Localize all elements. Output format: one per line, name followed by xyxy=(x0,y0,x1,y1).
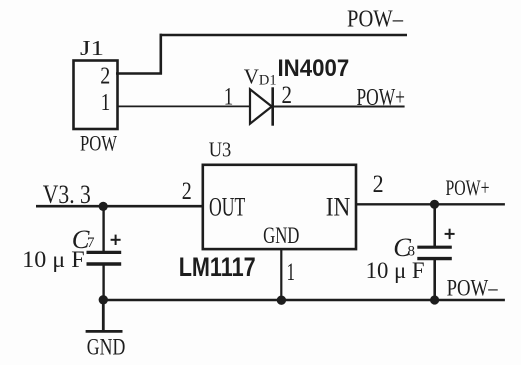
svg-text:POW+: POW+ xyxy=(446,175,490,200)
node C8/POW- junction xyxy=(430,295,439,304)
svg-text:2: 2 xyxy=(373,171,384,198)
wire U3 IN pin 2 to POW+ xyxy=(356,203,505,205)
wire bottom POW- rail xyxy=(103,299,505,302)
svg-text:V3. 3: V3. 3 xyxy=(43,179,91,209)
svg-text:VD1: VD1 xyxy=(244,65,277,89)
svg-text:GND: GND xyxy=(263,223,299,249)
wire V3.3 to U3 OUT pin 2 xyxy=(36,205,203,208)
svg-text:1: 1 xyxy=(287,257,296,286)
svg-text:OUT: OUT xyxy=(209,193,245,222)
svg-text:POW: POW xyxy=(80,131,118,156)
svg-text:2: 2 xyxy=(182,178,192,205)
svg-text:GND: GND xyxy=(87,335,126,360)
svg-text:1: 1 xyxy=(101,90,111,116)
svg-text:J1: J1 xyxy=(80,36,104,60)
svg-text:10 μ F: 10 μ F xyxy=(366,258,425,284)
node POW+/C8 junction xyxy=(430,200,439,209)
node C7/GND junction xyxy=(99,295,108,304)
capacitor C7 xyxy=(87,206,122,300)
svg-text:POW+: POW+ xyxy=(357,84,406,111)
node U3 pin1 junction xyxy=(277,296,286,305)
svg-text:IN: IN xyxy=(326,193,351,222)
svg-text:10 μ F: 10 μ F xyxy=(22,247,84,273)
svg-text:POW–: POW– xyxy=(447,276,498,302)
connector J1 xyxy=(74,61,118,130)
svg-text:7: 7 xyxy=(87,235,95,251)
svg-text:2: 2 xyxy=(100,64,110,90)
wire J1 pin1 to diode anode xyxy=(117,105,250,107)
svg-text:2: 2 xyxy=(282,82,293,109)
svg-text:LM1117: LM1117 xyxy=(179,252,256,282)
diode VD1 xyxy=(250,87,273,125)
wire POW- top rail xyxy=(116,34,407,75)
ground xyxy=(86,300,123,331)
svg-text:U3: U3 xyxy=(209,137,232,161)
IC U3 body xyxy=(203,165,356,249)
svg-text:IN4007: IN4007 xyxy=(278,55,350,82)
svg-text:POW–: POW– xyxy=(347,6,404,33)
node V3.3/C7 junction xyxy=(99,202,108,211)
svg-text:1: 1 xyxy=(224,84,234,111)
wire U3 GND pin 1 xyxy=(280,249,282,300)
capacitor C8 xyxy=(417,204,454,300)
wire diode cathode to POW+ xyxy=(273,106,405,108)
